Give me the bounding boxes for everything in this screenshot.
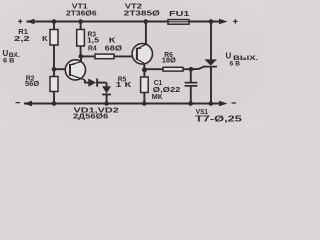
svg-text:T7-Ø,25: T7-Ø,25 [195, 115, 242, 124]
svg-text:R4: R4 [88, 44, 97, 52]
svg-text:U: U [3, 49, 9, 58]
svg-text:56Ø: 56Ø [25, 79, 39, 88]
svg-text:1 К: 1 К [116, 81, 132, 89]
svg-text:U: U [226, 51, 232, 60]
svg-text:2Д56Ø6: 2Д56Ø6 [73, 111, 109, 120]
svg-text:1,5: 1,5 [87, 36, 100, 44]
svg-text:2T36Ø6: 2T36Ø6 [66, 9, 97, 17]
svg-text:2,2: 2,2 [14, 35, 30, 44]
svg-text:2T385Ø: 2T385Ø [124, 9, 160, 17]
svg-text:6 В: 6 В [230, 60, 241, 67]
svg-text:68Ø: 68Ø [105, 43, 123, 52]
svg-text:FU1: FU1 [169, 9, 189, 17]
svg-text:6 В: 6 В [3, 58, 14, 65]
svg-text:МК: МК [152, 92, 163, 101]
svg-text:18Ø: 18Ø [162, 55, 176, 64]
